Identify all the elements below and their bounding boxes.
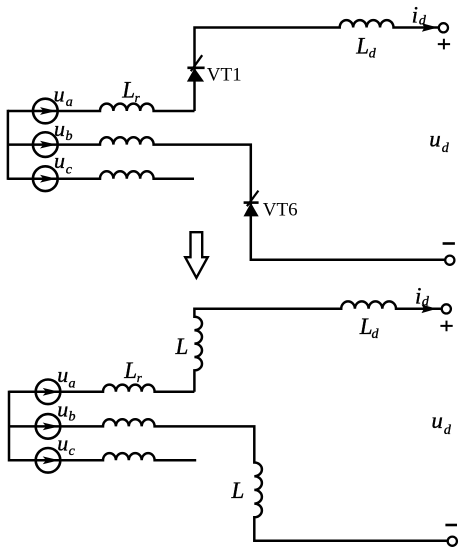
svg-text:u: u <box>54 81 65 106</box>
thyristor VT1 <box>187 55 205 81</box>
svg-text:L: L <box>231 478 245 503</box>
voltage source uc (bottom) <box>36 448 61 473</box>
svg-text:i: i <box>412 2 418 27</box>
svg-text:b: b <box>66 129 73 144</box>
voltage source ub (bottom) <box>36 414 61 439</box>
wire phase a with inductor Lr coil (bottom) <box>9 385 194 392</box>
voltage source ub (top) <box>33 132 58 157</box>
svg-text:L: L <box>175 334 189 359</box>
svg-text:L: L <box>355 33 369 58</box>
svg-text:VT1: VT1 <box>207 65 242 86</box>
terminal plus (top) <box>439 23 448 32</box>
svg-text:d: d <box>369 47 377 62</box>
hollow down arrow <box>185 232 208 278</box>
wire vertical inductor L branch and top rail with Ld coil (bottom) <box>194 301 442 391</box>
wire phase b with inductor coil, corner down through L to bottom rail (bottom) <box>9 419 448 541</box>
svg-text:L: L <box>359 314 373 339</box>
svg-text:d: d <box>372 327 380 342</box>
svg-text:u: u <box>54 116 65 141</box>
terminal minus (top) <box>445 256 454 265</box>
terminal minus (bottom) <box>448 537 457 546</box>
svg-text:u: u <box>57 430 68 455</box>
current arrow id (bottom) <box>422 305 437 314</box>
svg-text:d: d <box>442 141 450 156</box>
svg-text:b: b <box>69 410 76 425</box>
svg-text:c: c <box>66 163 73 178</box>
wire phase c with inductor coil (top, dead end) <box>8 171 194 178</box>
svg-text:a: a <box>69 377 76 392</box>
svg-text:d: d <box>444 423 452 438</box>
svg-text:u: u <box>54 148 65 173</box>
svg-text:L: L <box>121 78 135 103</box>
wire left bus (bottom circuit) <box>8 391 11 462</box>
svg-text:i: i <box>415 283 421 308</box>
thyristor VT6 <box>244 191 259 217</box>
voltage source ua (bottom) <box>36 380 61 405</box>
svg-text:u: u <box>57 362 68 387</box>
svg-text:u: u <box>57 396 68 421</box>
voltage source uc (top) <box>33 166 58 191</box>
svg-text:VT6: VT6 <box>263 200 298 221</box>
wire phase c with inductor coil (bottom, dead end) <box>9 453 196 460</box>
wire VT1 branch and top rail with inductor Ld coil (top) <box>195 20 439 111</box>
voltage source ua (top) <box>33 99 58 124</box>
terminal plus (bottom) <box>442 304 451 313</box>
svg-text:d: d <box>419 13 427 28</box>
wire phase b with inductor coil, corner down to VT6, bottom rail (top) <box>8 137 445 260</box>
wire left bus (top circuit) <box>7 110 10 180</box>
current arrow id (top) <box>422 23 438 32</box>
svg-text:u: u <box>431 408 443 433</box>
svg-text:a: a <box>66 95 73 110</box>
svg-text:d: d <box>422 295 430 310</box>
wire phase a with inductor Lr coil (top) <box>8 104 195 111</box>
svg-text:c: c <box>69 444 76 459</box>
svg-text:L: L <box>123 358 137 383</box>
svg-text:u: u <box>429 126 441 151</box>
